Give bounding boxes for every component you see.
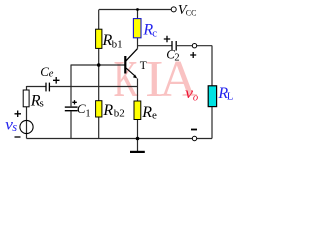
svg-text:b1: b1 [112,38,123,50]
svg-text:R: R [141,104,152,121]
svg-text:R: R [102,102,113,119]
svg-text:o: o [193,93,198,104]
svg-text:2: 2 [174,53,179,64]
svg-text:CC: CC [186,9,197,18]
svg-text:c: c [152,28,157,40]
svg-text:e: e [152,109,157,121]
svg-text:b2: b2 [114,107,125,119]
svg-text:1: 1 [85,108,90,119]
svg-text:e: e [49,69,54,80]
svg-text:s: s [12,120,17,134]
svg-text:T: T [140,60,147,72]
svg-text:L: L [227,90,234,102]
svg-text:s: s [40,97,44,109]
